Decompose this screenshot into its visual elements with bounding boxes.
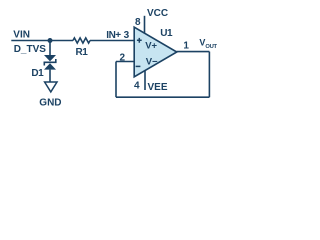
wire feedback left vertical xyxy=(115,62,117,98)
VCC pin stub wire xyxy=(144,16,146,34)
VEE pin stub wire xyxy=(144,71,146,91)
diode D1 bottom triangle xyxy=(44,63,56,69)
svg-text:R1: R1 xyxy=(76,47,89,58)
svg-text:3: 3 xyxy=(124,30,130,41)
wire feedback right vertical xyxy=(208,52,210,98)
wire VIN to IN+ (main horizontal net) xyxy=(11,40,73,42)
svg-text:1: 1 xyxy=(183,41,189,52)
node junction dot at diode tap xyxy=(48,38,53,43)
svg-text:GND: GND xyxy=(39,98,61,109)
op-amp non-inverting input marker + xyxy=(137,38,142,43)
svg-text:IN+: IN+ xyxy=(106,30,121,41)
wire diode branch vertical xyxy=(49,41,51,56)
svg-text:U1: U1 xyxy=(160,28,173,39)
svg-text:4: 4 xyxy=(134,81,140,92)
resistor R1 xyxy=(73,38,90,43)
diode D1 zener bar xyxy=(44,59,56,66)
svg-text:V−: V− xyxy=(146,56,158,67)
op-amp inverting input marker - xyxy=(136,65,141,67)
svg-text:VIN: VIN xyxy=(13,29,30,40)
op-amp U1 triangle body xyxy=(134,27,177,77)
svg-text:D1: D1 xyxy=(31,68,44,79)
svg-text:8: 8 xyxy=(135,17,141,28)
wire inverting input (pin 2) xyxy=(116,61,134,63)
wire R1 right lead to op-amp pin 3 xyxy=(90,40,134,42)
wire diode to ground xyxy=(49,70,51,82)
ground symbol (open triangle) xyxy=(45,82,57,92)
svg-text:2: 2 xyxy=(120,53,126,64)
svg-text:VEE: VEE xyxy=(148,82,168,93)
svg-text:VOUT: VOUT xyxy=(199,38,217,50)
svg-text:D_TVS: D_TVS xyxy=(14,44,47,55)
svg-text:V+: V+ xyxy=(145,40,157,51)
diode D1 (bidirectional TVS) top triangle xyxy=(44,55,56,61)
wire feedback bottom horizontal xyxy=(116,96,209,98)
wire op-amp output xyxy=(177,51,210,53)
svg-text:VCC: VCC xyxy=(147,8,168,19)
